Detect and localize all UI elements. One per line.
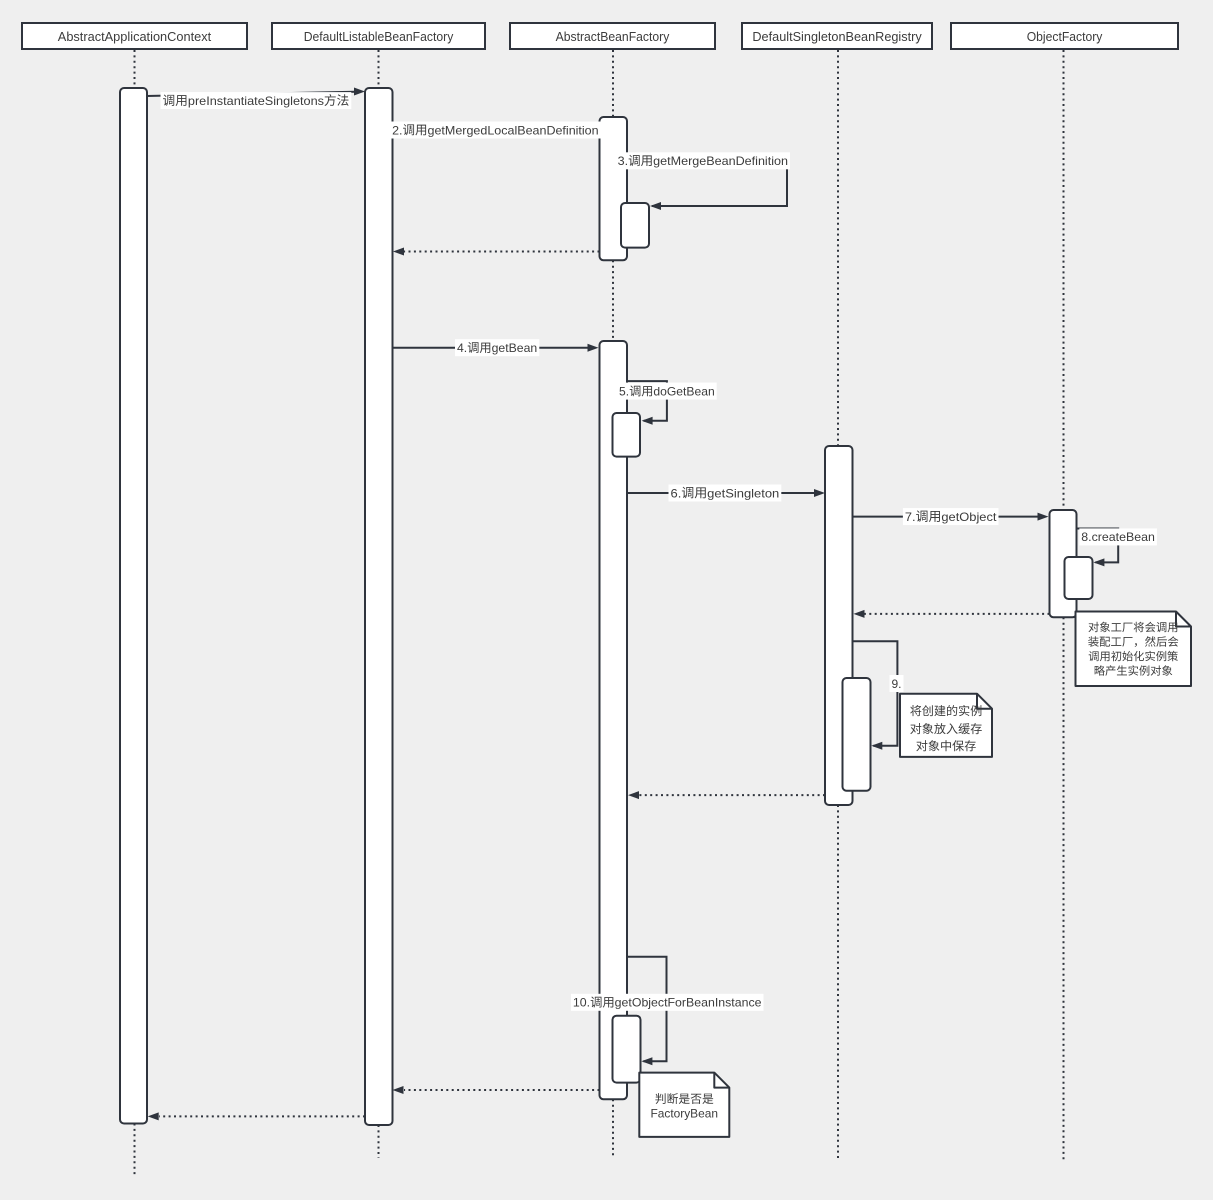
activation bar AbstractBeanFactory (msg4) <box>600 341 628 1099</box>
message 4 调用getBean (wire) <box>393 344 599 352</box>
svg-text:doGetBean: doGetBean <box>653 384 714 398</box>
message 1 调用preInstantiateSingletons方法 (wire) <box>147 88 365 97</box>
message 10 label 10.调用getObjectForBeanInstance <box>571 994 764 1011</box>
note 将创建的实例对象放入缓存 <box>900 694 992 757</box>
lifeline header DefaultSingletonBeanRegistry <box>742 23 932 49</box>
message 6 label 6.调用getSingleton <box>669 485 782 502</box>
note 判断是否是FactoryBean <box>639 1073 729 1137</box>
nested activation AbstractBeanFactory (msg3) <box>621 203 649 248</box>
message 2 调用getMergedLocalBeanDefinition (wire) <box>393 126 600 134</box>
svg-text:preInstantiateSingletons: preInstantiateSingletons <box>188 94 324 108</box>
lifeline AbstractBeanFactory <box>612 50 614 1159</box>
svg-text:DefaultListableBeanFactory: DefaultListableBeanFactory <box>304 29 454 44</box>
svg-text:2.: 2. <box>392 123 402 137</box>
svg-text:getObjectForBeanInstance: getObjectForBeanInstance <box>615 996 762 1010</box>
note 对象工厂将会调用装配工厂 <box>1076 612 1192 687</box>
svg-text:getObject: getObject <box>941 510 997 524</box>
svg-text:3.: 3. <box>618 154 629 168</box>
svg-text:10.: 10. <box>573 996 590 1010</box>
lifeline ObjectFactory <box>1063 50 1065 1160</box>
svg-text:DefaultSingletonBeanRegistry: DefaultSingletonBeanRegistry <box>752 29 922 44</box>
message 3 调用getMergeBeanDefinition self-call (wire) <box>627 161 787 210</box>
nested activation AbstractBeanFactory (msg5) <box>613 413 641 457</box>
message 10 调用getObjectForBeanInstance self-call (wire) <box>627 957 667 1065</box>
nested activation AbstractBeanFactory (msg10) <box>613 1016 641 1083</box>
svg-text:getSingleton: getSingleton <box>707 486 779 500</box>
message 7 label 7.调用getObject <box>903 508 999 525</box>
lifeline header AbstractBeanFactory <box>510 23 715 49</box>
return message dashed DefaultSingletonBeanRegistry to AbstractBeanFactory (wire) <box>628 791 825 799</box>
activation bar AbstractBeanFactory (msg2) <box>600 117 628 260</box>
lifeline header ObjectFactory <box>951 23 1178 49</box>
message 6 调用getSingleton (wire) <box>627 489 825 497</box>
svg-text:getMergeBeanDefinition: getMergeBeanDefinition <box>653 154 788 168</box>
message 9 label 9. <box>890 675 904 692</box>
svg-text:9.: 9. <box>892 677 902 691</box>
svg-text:ObjectFactory: ObjectFactory <box>1027 29 1103 44</box>
lifeline header DefaultListableBeanFactory <box>272 23 485 49</box>
message 1 label 调用preInstantiateSingletons方法 <box>161 92 352 109</box>
lifeline header AbstractApplicationContext <box>22 23 247 49</box>
message 5 label 5.调用doGetBean <box>617 383 717 400</box>
message 8 createBean self-call (wire) <box>1076 529 1118 567</box>
svg-text:6.: 6. <box>671 486 682 500</box>
message 8 label 8.createBean <box>1079 528 1157 545</box>
nested activation ObjectFactory (msg8) <box>1065 557 1093 599</box>
message 2 label 2.调用getMergedLocalBeanDefinition <box>390 122 600 139</box>
message 4 label 4.调用getBean <box>455 339 539 356</box>
svg-text:7.: 7. <box>905 510 916 524</box>
lifeline AbstractApplicationContext <box>134 50 136 1175</box>
nested activation DefaultSingletonBeanRegistry (msg9) <box>843 678 871 791</box>
svg-text:getMergedLocalBeanDefinition: getMergedLocalBeanDefinition <box>428 123 599 137</box>
activation bar ObjectFactory <box>1050 510 1077 617</box>
message 5 调用doGetBean self-call (wire) <box>627 381 667 425</box>
lifeline DefaultListableBeanFactory <box>378 50 380 1158</box>
message 3 label 3.调用getMergeBeanDefinition <box>616 152 790 169</box>
lifeline DefaultSingletonBeanRegistry <box>837 50 839 1161</box>
activation bar AbstractApplicationContext <box>120 88 147 1124</box>
message 9 self-call (wire) <box>853 641 898 749</box>
svg-text:FactoryBean: FactoryBean <box>651 1107 719 1121</box>
svg-text:4.: 4. <box>457 341 467 355</box>
activation bar DefaultSingletonBeanRegistry <box>825 446 853 805</box>
svg-text:5.: 5. <box>619 384 629 398</box>
activation bar DefaultListableBeanFactory <box>365 88 393 1125</box>
return message dashed DefaultListableBeanFactory to AbstractApplicationContext (wire) <box>148 1112 365 1120</box>
svg-text:AbstractBeanFactory: AbstractBeanFactory <box>556 29 670 44</box>
return message dashed AbstractBeanFactory to DefaultListableBeanFactory (wire) <box>393 248 600 256</box>
svg-text:8.createBean: 8.createBean <box>1081 530 1155 544</box>
message 7 调用getObject (wire) <box>853 513 1049 521</box>
return message dashed AbstractBeanFactory to DefaultListableBeanFactory bottom (wire) <box>393 1086 600 1094</box>
return message dashed ObjectFactory to DefaultSingletonBeanRegistry (wire) <box>854 610 1050 618</box>
svg-text:getBean: getBean <box>492 341 538 355</box>
svg-text:AbstractApplicationContext: AbstractApplicationContext <box>58 29 212 44</box>
